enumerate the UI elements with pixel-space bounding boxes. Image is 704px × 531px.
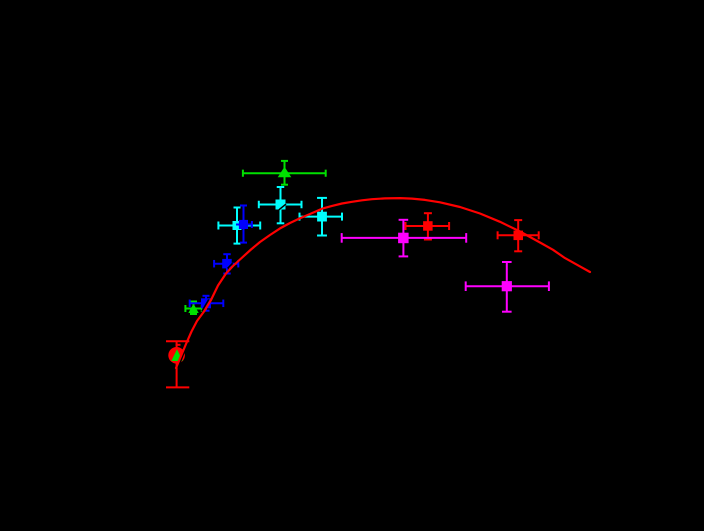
point B marker (square) (276, 200, 286, 210)
point H (red circle) error bars (166, 341, 189, 387)
point D (blue) error bars (236, 206, 252, 243)
point F error bars (190, 296, 224, 311)
point H green marker (triangle) (171, 349, 182, 361)
slash over H (178, 352, 184, 368)
point E error bars (214, 254, 238, 273)
slash over F (202, 300, 209, 312)
point J error bars (406, 213, 450, 239)
point E marker (square) (222, 259, 232, 269)
point H secondary small cap (176, 344, 181, 346)
point F marker (square) (201, 298, 211, 308)
point H marker (open circle) (168, 347, 185, 364)
point A marker (triangle) (278, 167, 292, 177)
point G error bars (185, 302, 201, 315)
point B error bars (259, 187, 302, 223)
point Dc (cyan) marker (square) (233, 221, 242, 230)
point D (blue) marker (square) (239, 220, 248, 229)
point K error bars (498, 220, 539, 251)
point Dc (cyan) error bars (218, 208, 260, 244)
point L marker (square) (502, 281, 512, 291)
slash over E (228, 263, 233, 268)
point J marker (square) (423, 221, 433, 231)
point C error bars (300, 198, 343, 236)
point K marker (square) (514, 231, 524, 241)
point I marker (square) (398, 233, 409, 244)
point G marker (triangle) (188, 304, 198, 313)
slash over B (279, 204, 286, 210)
point C marker (square) (317, 212, 327, 222)
point I error bars (342, 220, 467, 257)
point L error bars (466, 262, 549, 312)
fit curve (176, 198, 590, 368)
point A error bars (243, 161, 326, 185)
